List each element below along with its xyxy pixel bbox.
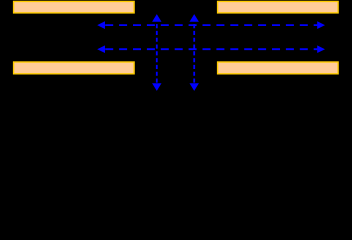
bottom-left plate (14, 62, 135, 74)
left vertical double arrow (dashed) (152, 14, 161, 91)
right vertical double arrow (dashed) (190, 14, 199, 91)
lower horizontal double arrow (dashed) (97, 45, 325, 53)
top-left plate (14, 1, 135, 12)
top-right plate (218, 1, 339, 12)
upper horizontal double arrow (dashed) (97, 21, 325, 29)
bottom-right plate (218, 62, 339, 74)
